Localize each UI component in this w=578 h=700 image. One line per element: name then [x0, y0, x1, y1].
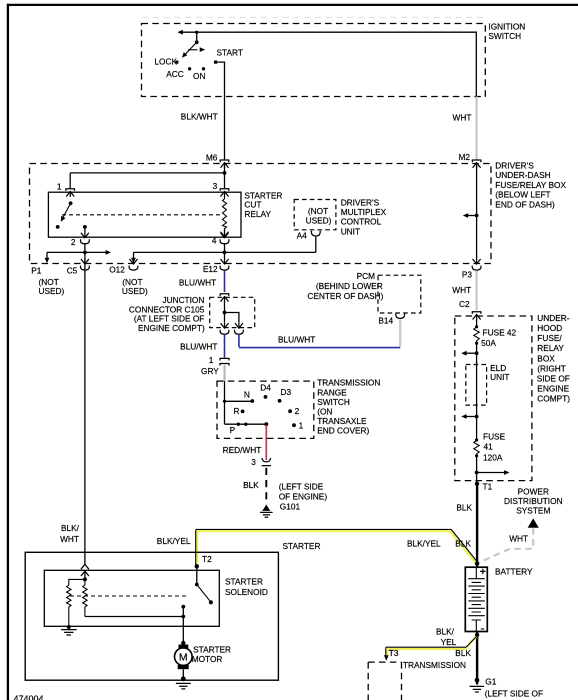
svg-text:M2: M2: [458, 152, 470, 162]
svg-text:R: R: [234, 406, 240, 416]
svg-text:B14: B14: [378, 316, 393, 326]
svg-text:G1: G1: [485, 676, 496, 686]
svg-text:COMPT): COMPT): [537, 394, 570, 404]
svg-text:N: N: [244, 390, 250, 400]
svg-text:GRY: GRY: [201, 366, 219, 376]
svg-text:P: P: [230, 425, 236, 435]
svg-text:BLK/YEL: BLK/YEL: [407, 538, 441, 548]
svg-text:RANGE: RANGE: [317, 387, 347, 397]
svg-text:BLK/YEL: BLK/YEL: [157, 536, 191, 546]
svg-text:TRANSMISSION: TRANSMISSION: [317, 378, 380, 388]
svg-text:BLK/: BLK/: [436, 626, 455, 636]
svg-text:120A: 120A: [483, 452, 503, 462]
svg-text:2: 2: [71, 237, 76, 247]
svg-text:STARTER: STARTER: [283, 541, 321, 551]
svg-text:(ON: (ON: [317, 407, 332, 417]
svg-text:HOOD: HOOD: [537, 323, 562, 333]
svg-text:USED): USED): [122, 286, 148, 296]
svg-text:RELAY: RELAY: [537, 343, 564, 353]
svg-text:FUSE/RELAY BOX: FUSE/RELAY BOX: [495, 180, 566, 190]
svg-text:2: 2: [295, 406, 300, 416]
svg-text:RED/WHT: RED/WHT: [223, 445, 262, 455]
svg-text:1: 1: [57, 181, 62, 191]
svg-text:FUSE: FUSE: [483, 431, 506, 441]
svg-text:BLU/WHT: BLU/WHT: [180, 342, 217, 352]
svg-text:LOCK: LOCK: [154, 56, 177, 66]
svg-text:END COVER): END COVER): [317, 426, 369, 436]
svg-text:(LEFT SIDE OF: (LEFT SIDE OF: [485, 688, 543, 698]
svg-text:DRIVER'S: DRIVER'S: [341, 197, 380, 207]
svg-text:SOLENOID: SOLENOID: [225, 587, 268, 597]
svg-text:SWITCH: SWITCH: [488, 31, 521, 41]
svg-text:T2: T2: [202, 554, 212, 564]
svg-text:BLK: BLK: [243, 480, 259, 490]
svg-text:DISTRIBUTION: DISTRIBUTION: [504, 496, 563, 506]
svg-text:POWER: POWER: [518, 487, 549, 497]
svg-text:(BELOW LEFT: (BELOW LEFT: [495, 190, 550, 200]
svg-text:M: M: [179, 652, 188, 664]
svg-text:YEL: YEL: [441, 637, 457, 647]
svg-text:SYSTEM: SYSTEM: [516, 506, 550, 516]
svg-text:MULTIPLEX: MULTIPLEX: [341, 207, 387, 217]
svg-text:WHT: WHT: [453, 113, 472, 123]
svg-text:WHT: WHT: [60, 534, 79, 544]
svg-text:(LEFT SIDE: (LEFT SIDE: [279, 482, 324, 492]
svg-text:FUSE/: FUSE/: [537, 333, 562, 343]
svg-text:USED): USED): [306, 216, 332, 226]
svg-text:WHT: WHT: [452, 285, 471, 295]
svg-text:P3: P3: [462, 269, 473, 279]
svg-text:CONTROL: CONTROL: [341, 217, 382, 227]
svg-text:OF ENGINE): OF ENGINE): [279, 491, 328, 501]
svg-text:CENTER OF DASH): CENTER OF DASH): [307, 291, 383, 301]
svg-text:STARTER: STARTER: [193, 645, 231, 655]
svg-text:ACC: ACC: [166, 69, 184, 79]
svg-text:UNDER-DASH: UNDER-DASH: [495, 170, 550, 180]
svg-text:50A: 50A: [481, 338, 496, 348]
svg-text:SWITCH: SWITCH: [317, 397, 350, 407]
svg-text:USED): USED): [39, 286, 65, 296]
svg-text:DRIVER'S: DRIVER'S: [495, 161, 534, 171]
svg-text:(RIGHT: (RIGHT: [537, 363, 566, 373]
svg-text:O12: O12: [109, 265, 125, 275]
svg-text:BLK/WHT: BLK/WHT: [181, 112, 218, 122]
svg-text:UNIT: UNIT: [341, 226, 360, 236]
svg-text:WHT: WHT: [509, 533, 528, 543]
svg-text:ENGINE: ENGINE: [537, 384, 569, 394]
svg-text:BATTERY: BATTERY: [495, 567, 533, 577]
svg-text:FUSE 42: FUSE 42: [483, 328, 517, 338]
svg-text:MOTOR: MOTOR: [192, 654, 223, 664]
svg-text:D3: D3: [281, 387, 292, 397]
svg-text:ENGINE COMPT): ENGINE COMPT): [138, 323, 205, 333]
svg-text:BLU/WHT: BLU/WHT: [278, 334, 315, 344]
svg-text:TRANSAXLE: TRANSAXLE: [317, 416, 367, 426]
svg-text:E12: E12: [203, 264, 218, 274]
svg-text:ON: ON: [193, 71, 205, 81]
svg-text:1: 1: [299, 420, 304, 430]
svg-text:BLU/WHT: BLU/WHT: [179, 278, 216, 288]
svg-text:BLK: BLK: [456, 503, 472, 513]
svg-text:C2: C2: [459, 299, 470, 309]
svg-text:474004: 474004: [14, 694, 44, 700]
svg-text:A4: A4: [297, 230, 308, 240]
svg-text:C5: C5: [67, 265, 78, 275]
svg-text:BOX: BOX: [537, 353, 555, 363]
svg-text:TRANSMISSION: TRANSMISSION: [403, 660, 466, 670]
svg-text:UNDER-: UNDER-: [537, 313, 570, 323]
svg-text:T1: T1: [483, 481, 493, 491]
svg-text:RELAY: RELAY: [244, 209, 271, 219]
svg-text:3: 3: [251, 457, 256, 467]
svg-text:1: 1: [209, 355, 214, 365]
svg-text:D4: D4: [260, 383, 271, 393]
svg-text:3: 3: [213, 181, 218, 191]
svg-text:START: START: [217, 47, 243, 57]
svg-text:G101: G101: [280, 502, 301, 512]
svg-text:41: 41: [484, 441, 494, 451]
svg-text:T3: T3: [389, 648, 399, 658]
svg-text:BLK: BLK: [455, 648, 471, 658]
svg-text:END OF DASH): END OF DASH): [495, 199, 555, 209]
svg-text:STARTER: STARTER: [225, 577, 263, 587]
svg-text:PCM: PCM: [357, 271, 376, 281]
svg-text:4: 4: [212, 235, 217, 245]
svg-text:SIDE OF: SIDE OF: [537, 374, 570, 384]
svg-text:UNIT: UNIT: [490, 372, 509, 382]
svg-text:BLK: BLK: [455, 539, 471, 549]
svg-text:M6: M6: [206, 152, 218, 162]
svg-text:BLK/: BLK/: [61, 523, 80, 533]
svg-text:P1: P1: [31, 265, 42, 275]
svg-text:(BEHIND LOWER: (BEHIND LOWER: [316, 281, 383, 291]
svg-text:(NOT: (NOT: [308, 206, 328, 216]
